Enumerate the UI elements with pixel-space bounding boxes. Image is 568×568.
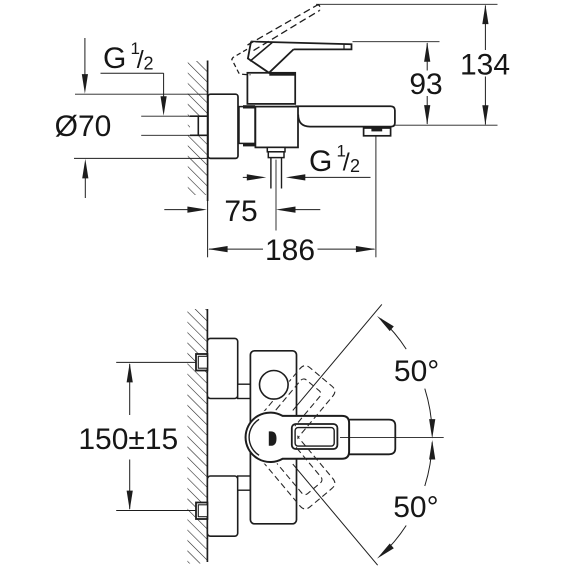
svg-text:150±15: 150±15 [78, 423, 178, 456]
svg-text:50°: 50° [394, 355, 439, 388]
svg-text:186: 186 [265, 234, 315, 267]
svg-text:2: 2 [144, 54, 154, 74]
svg-text:G: G [103, 42, 126, 75]
svg-text:/: / [343, 148, 350, 176]
svg-text:75: 75 [224, 195, 257, 228]
svg-text:Ø70: Ø70 [55, 110, 112, 143]
svg-text:93: 93 [409, 68, 442, 101]
svg-text:G: G [309, 145, 332, 178]
svg-text:134: 134 [460, 48, 510, 81]
svg-text:50°: 50° [393, 491, 438, 524]
svg-text:2: 2 [350, 156, 360, 176]
